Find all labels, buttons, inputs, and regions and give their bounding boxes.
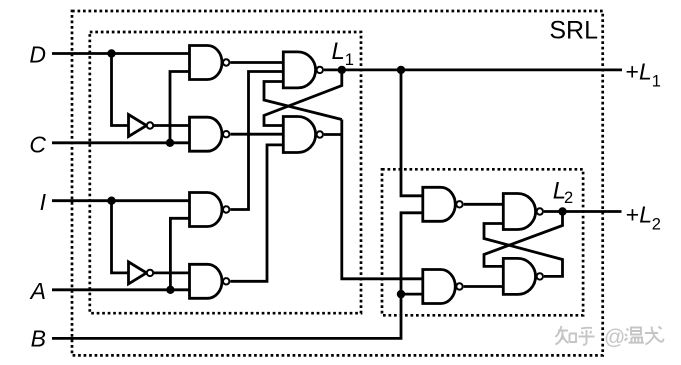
svg-text:D: D bbox=[29, 42, 46, 68]
nand gate G3 (I·A) bbox=[190, 193, 230, 227]
wire U2 feedback cross to U1 bottom input bbox=[264, 82, 342, 120]
svg-text:A: A bbox=[29, 278, 46, 304]
nand latch gate U2 (L1 bottom) bbox=[283, 117, 323, 153]
wire gate G1 output to latch gate U1 top input bbox=[230, 61, 283, 64]
node L1 branch junction dot bbox=[397, 66, 405, 74]
inverter N1 (D-bar) bbox=[129, 115, 154, 137]
nand gate G2 (D-bar·C) bbox=[190, 117, 230, 151]
node L2 output junction dot bbox=[558, 207, 566, 215]
inverter N2 (I-bar) bbox=[129, 262, 154, 284]
svg-text:1: 1 bbox=[345, 51, 354, 69]
nand gate G5 (L1·B) bbox=[423, 187, 463, 221]
wire B input line to L2 section bbox=[52, 213, 423, 339]
wire B dot to gate G6 lower input bbox=[401, 293, 423, 296]
node L1 output junction dot bbox=[338, 66, 346, 74]
wire gate G3 output up to latch gate U1 middle input bbox=[230, 72, 283, 210]
wire gate G5 output to latch gate U3 top input bbox=[464, 203, 504, 206]
wire gate G4 output up to latch gate U2 bottom input bbox=[230, 145, 283, 281]
wire L1 feedback cross to U2 top input bbox=[264, 70, 342, 126]
svg-text:I: I bbox=[40, 189, 47, 215]
wire C input line bbox=[52, 141, 190, 144]
svg-text:2: 2 bbox=[564, 189, 573, 207]
wire I dot to inverter N2 input bbox=[112, 201, 129, 273]
wire inverter N1 output to gate G2 upper input bbox=[153, 124, 190, 127]
node A junction dot bbox=[166, 286, 174, 294]
svg-text:2: 2 bbox=[652, 216, 661, 234]
node D junction dot bbox=[107, 49, 115, 57]
wire D input line bbox=[52, 52, 190, 55]
wire C dot up to gate G1 lower input bbox=[170, 72, 190, 143]
node I junction dot bbox=[107, 197, 115, 205]
nand gate G6 (-L1·B) bbox=[423, 270, 463, 304]
svg-text:L: L bbox=[332, 38, 345, 65]
wire gate G6 output to latch gate U4 bottom input bbox=[464, 285, 504, 288]
wire D dot to inverter N1 input bbox=[112, 54, 129, 126]
nand gate G4 (I-bar·A) bbox=[190, 264, 230, 298]
nand gate G1 (D·C) bbox=[190, 46, 230, 80]
svg-text:@: @ bbox=[604, 326, 625, 349]
node C junction dot bbox=[166, 139, 174, 147]
svg-text:+L: +L bbox=[626, 59, 652, 85]
wire A dot up to gate G3 lower input bbox=[170, 218, 190, 289]
nand latch gate U4 (L2 bottom) bbox=[503, 258, 543, 294]
wire +L1 output line bbox=[324, 69, 622, 72]
wire U2 output to cross vertical bbox=[324, 133, 342, 136]
wire U4 output to cross vertical bbox=[484, 224, 563, 277]
wire gate G2 output to latch gate U2 middle input bbox=[230, 133, 283, 136]
outer dotted box SRL bbox=[72, 11, 603, 355]
svg-text:C: C bbox=[29, 131, 46, 157]
wire +L2 output line bbox=[544, 210, 622, 213]
wire +L1 drop to gate G5 top input bbox=[401, 70, 423, 196]
wire L2 feedback cross to U4 top input bbox=[484, 212, 563, 267]
svg-text:+L: +L bbox=[626, 201, 652, 227]
inner dotted box L1 latch section bbox=[90, 32, 361, 313]
svg-text:1: 1 bbox=[652, 72, 661, 90]
inner dotted box L2 latch section bbox=[382, 169, 583, 315]
svg-text:SRL: SRL bbox=[549, 17, 598, 45]
wire I input line bbox=[52, 199, 190, 202]
watermark zhihu @wenge bbox=[556, 326, 664, 345]
wire inverter N2 output to gate G4 upper input bbox=[153, 271, 190, 274]
wire -L1 down to gate G6 top input bbox=[342, 120, 423, 279]
wire A input line bbox=[52, 288, 190, 291]
node B junction dot on gate G6 lower input bbox=[397, 290, 405, 298]
nand latch gate U3 (L2 top) bbox=[503, 194, 543, 230]
svg-text:B: B bbox=[31, 326, 46, 352]
nand latch gate U1 (L1 top) bbox=[283, 52, 323, 88]
